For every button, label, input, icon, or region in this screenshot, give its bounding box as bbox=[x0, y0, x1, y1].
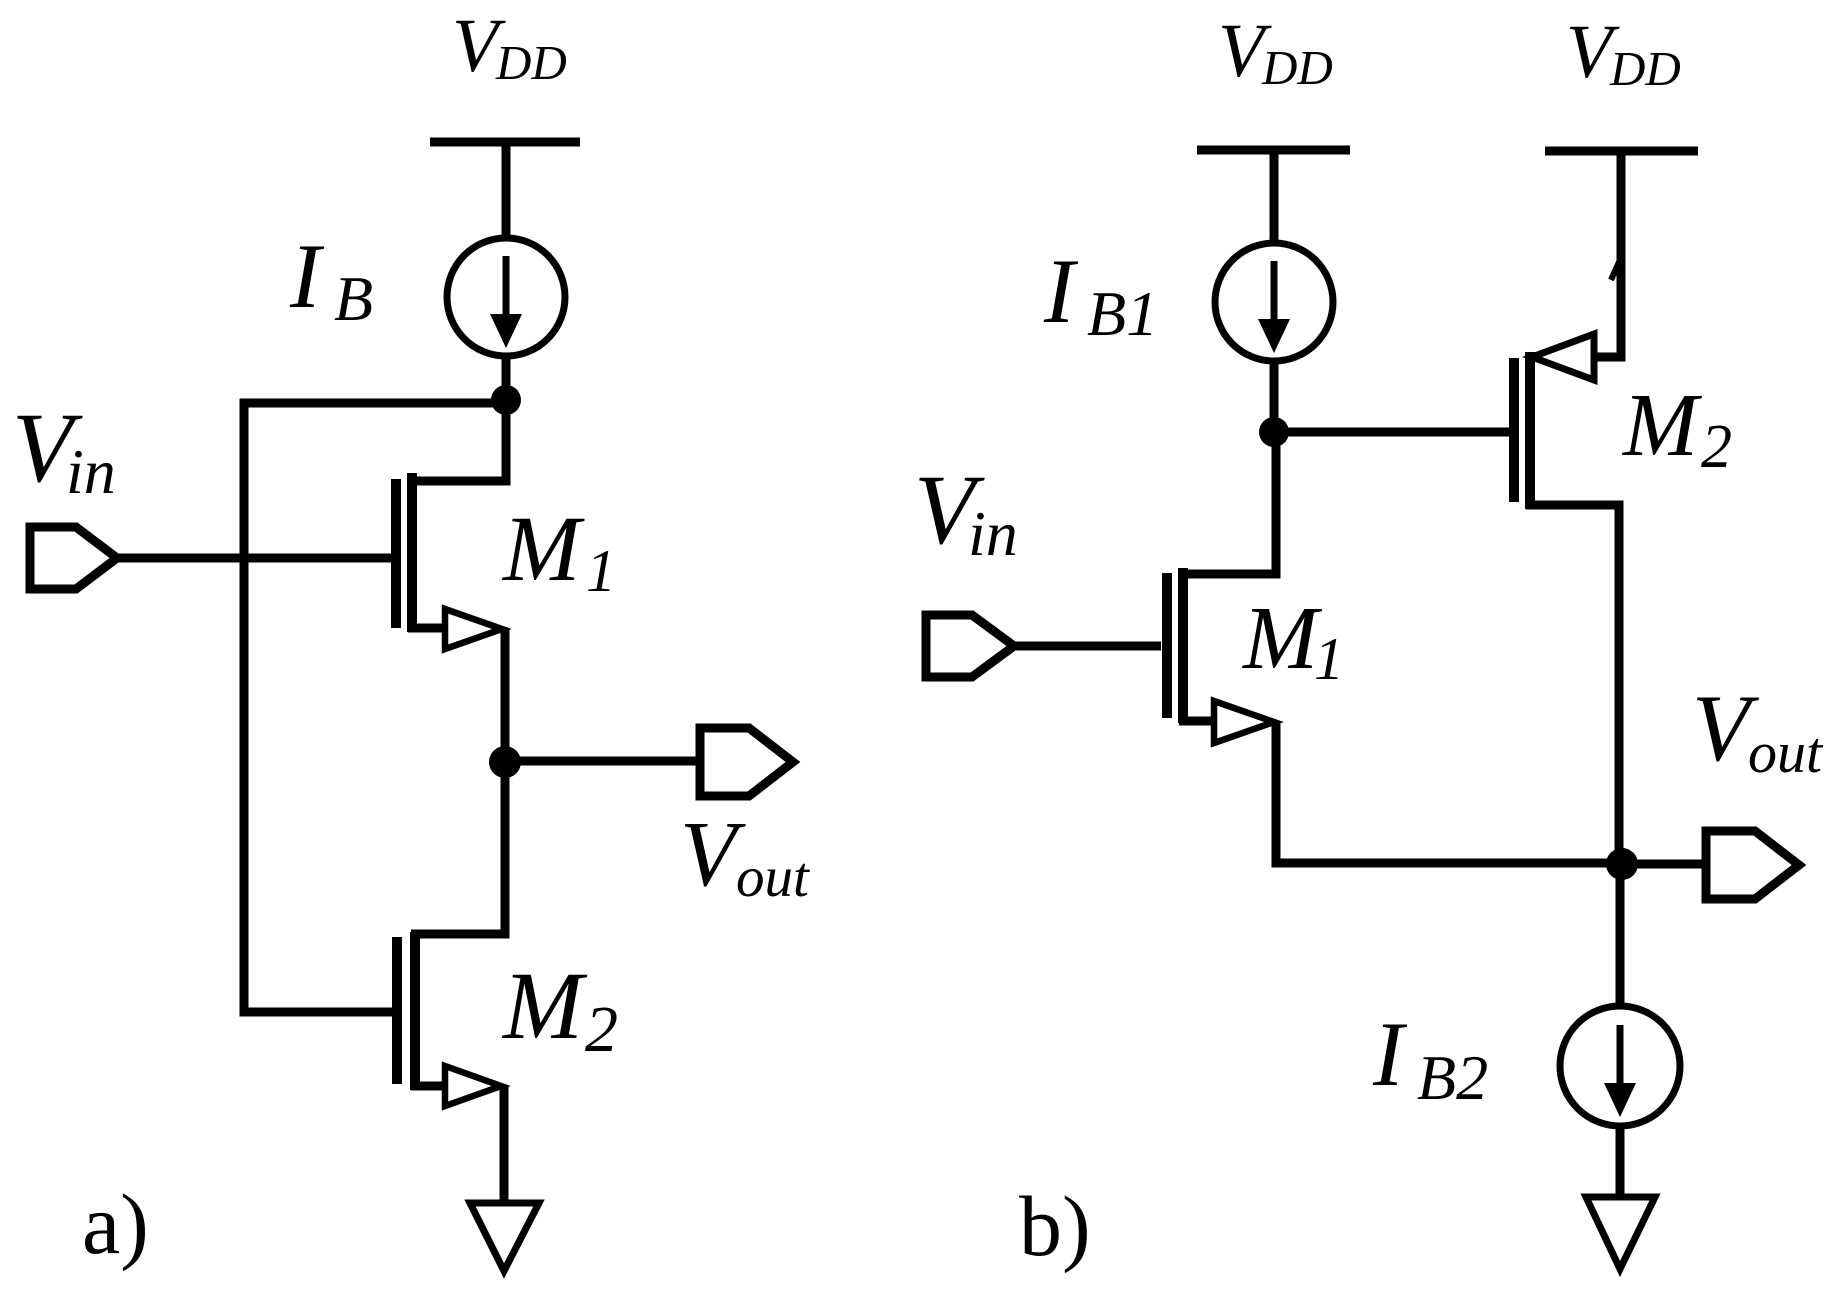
wire Vin to M1 gate (a) bbox=[117, 554, 392, 563]
wire IB to node A (a) bbox=[502, 356, 511, 404]
input terminal Vin (b) bbox=[926, 615, 1014, 677]
label M2 (a) bbox=[501, 952, 618, 1066]
ground symbol (a) bbox=[470, 1203, 539, 1271]
label M1 (a) bbox=[501, 498, 616, 604]
wire M2 source to ground (a) bbox=[500, 1086, 509, 1206]
node Vout junction dot (a) bbox=[489, 746, 521, 778]
label M1 (b) bbox=[1241, 589, 1344, 692]
transistor M1 (a) bbox=[396, 404, 506, 649]
wire IB2 to ground (b) bbox=[1616, 1126, 1625, 1200]
label Vin (a) bbox=[12, 392, 116, 507]
wire Vin to M1 gate (b) bbox=[1014, 642, 1161, 651]
wire M1 source down to Vout node and M2 drain (a) bbox=[411, 629, 505, 934]
svg-text:I: I bbox=[289, 225, 325, 327]
wire Vout (a) bbox=[505, 757, 700, 766]
node B junction dot (b) bbox=[1259, 417, 1289, 447]
ground symbol (b) bbox=[1586, 1197, 1655, 1269]
wire Vout stub (b) bbox=[1622, 860, 1706, 869]
current source IB2 bbox=[1560, 1006, 1680, 1126]
svg-text:out: out bbox=[1748, 720, 1824, 785]
svg-text:DD: DD bbox=[495, 35, 567, 90]
transistor M2 PMOS (b) bbox=[1514, 151, 1621, 868]
output terminal Vout (a) bbox=[700, 728, 793, 796]
power VDD rail bar left (b) bbox=[1197, 146, 1350, 155]
svg-text:1: 1 bbox=[586, 538, 616, 604]
current source IB1 bbox=[1215, 243, 1333, 361]
svg-text:DD: DD bbox=[1261, 40, 1333, 95]
label IB bbox=[289, 225, 373, 334]
label IB2 bbox=[1372, 1003, 1488, 1113]
label b) bbox=[1019, 1178, 1091, 1274]
node A junction dot (a) bbox=[491, 385, 521, 415]
wire VDD stem (a) bbox=[502, 142, 511, 240]
input terminal Vin (a) bbox=[30, 527, 117, 589]
label a) bbox=[82, 1176, 149, 1272]
transistor M1 (b) bbox=[1167, 436, 1276, 743]
svg-text:1: 1 bbox=[1314, 626, 1344, 692]
svg-text:B2: B2 bbox=[1417, 1042, 1488, 1113]
label Vout (b) bbox=[1692, 675, 1824, 785]
svg-text:in: in bbox=[968, 498, 1018, 569]
wire VDD stem (b) bbox=[1270, 150, 1279, 244]
tick mark on M2 source wire (b) bbox=[1611, 262, 1619, 280]
svg-text:M: M bbox=[1621, 376, 1703, 475]
svg-text:in: in bbox=[66, 436, 116, 507]
node Vout junction dot (b) bbox=[1606, 848, 1638, 880]
svg-text:DD: DD bbox=[1609, 41, 1681, 96]
label VDD (a) bbox=[452, 4, 567, 90]
svg-text:a): a) bbox=[82, 1176, 149, 1272]
wire M1 source down and bottom horizontal to Vout node (b) bbox=[1276, 722, 1622, 863]
svg-text:M: M bbox=[501, 498, 585, 601]
label Vout (a) bbox=[680, 803, 810, 909]
wire node B to M2 gate (b) bbox=[1274, 428, 1510, 437]
svg-text:out: out bbox=[736, 846, 810, 909]
label VDD right (b) bbox=[1566, 10, 1681, 96]
power VDD rail bar (a) bbox=[430, 138, 580, 147]
power VDD rail bar right (b) bbox=[1545, 147, 1698, 156]
wire Vout node down to IB2 (b) bbox=[1616, 864, 1625, 1006]
transistor M2 (a) bbox=[397, 932, 501, 1106]
svg-text:2: 2 bbox=[585, 993, 618, 1066]
label Vin (b) bbox=[914, 454, 1018, 569]
svg-text:M: M bbox=[1241, 589, 1323, 688]
svg-text:2: 2 bbox=[1701, 413, 1732, 481]
svg-text:B: B bbox=[334, 263, 373, 334]
svg-text:b): b) bbox=[1019, 1178, 1091, 1274]
label M2 (b) bbox=[1621, 376, 1732, 481]
svg-text:I: I bbox=[1372, 1003, 1408, 1105]
label VDD left (b) bbox=[1218, 9, 1333, 95]
wire IB1 to node B (b) bbox=[1270, 361, 1279, 436]
svg-text:I: I bbox=[1043, 240, 1079, 342]
output terminal Vout (b) bbox=[1706, 831, 1799, 899]
svg-text:M: M bbox=[501, 952, 588, 1059]
wire feedback top horizontal (a) bbox=[244, 403, 506, 1012]
current source IB bbox=[447, 238, 565, 356]
label IB1 bbox=[1043, 240, 1158, 349]
svg-text:B1: B1 bbox=[1087, 278, 1158, 349]
